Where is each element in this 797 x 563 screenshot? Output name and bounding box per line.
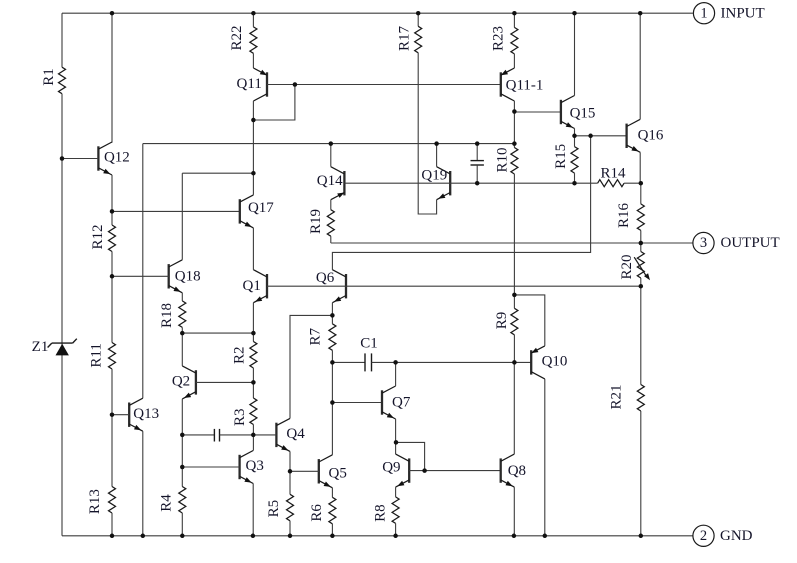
svg-text:R18: R18 xyxy=(159,303,175,328)
svg-text:R19: R19 xyxy=(308,209,324,234)
svg-text:Q16: Q16 xyxy=(638,128,664,144)
svg-text:R22: R22 xyxy=(229,25,245,50)
svg-text:Q8: Q8 xyxy=(508,463,526,479)
svg-text:R5: R5 xyxy=(266,500,282,518)
svg-text:R21: R21 xyxy=(609,384,625,409)
svg-text:R9: R9 xyxy=(494,312,510,330)
svg-text:Q11: Q11 xyxy=(237,76,262,92)
svg-text:R14: R14 xyxy=(600,165,626,181)
svg-text:R1: R1 xyxy=(41,68,57,86)
svg-text:1: 1 xyxy=(700,5,707,21)
svg-text:Q17: Q17 xyxy=(248,200,274,216)
svg-text:Q4: Q4 xyxy=(286,426,305,442)
svg-text:R20: R20 xyxy=(619,254,635,279)
svg-text:Q2: Q2 xyxy=(172,373,190,389)
svg-text:Q11-1: Q11-1 xyxy=(506,77,544,93)
svg-text:C1: C1 xyxy=(360,335,378,351)
svg-text:3: 3 xyxy=(700,235,707,251)
svg-text:R15: R15 xyxy=(553,144,569,169)
svg-text:R10: R10 xyxy=(494,147,510,172)
svg-text:2: 2 xyxy=(700,528,707,544)
svg-text:R8: R8 xyxy=(373,504,389,522)
svg-text:INPUT: INPUT xyxy=(721,5,765,21)
svg-text:R12: R12 xyxy=(90,224,106,249)
svg-text:R23: R23 xyxy=(491,26,507,51)
svg-text:Q6: Q6 xyxy=(316,270,335,286)
svg-text:R3: R3 xyxy=(232,409,248,427)
svg-text:Q12: Q12 xyxy=(104,150,130,166)
svg-text:GND: GND xyxy=(720,528,753,544)
svg-text:Q19: Q19 xyxy=(421,167,447,183)
svg-text:R16: R16 xyxy=(616,203,632,229)
svg-text:R6: R6 xyxy=(309,504,325,522)
svg-text:R2: R2 xyxy=(232,346,248,364)
svg-text:Q1: Q1 xyxy=(243,278,261,294)
svg-text:Q5: Q5 xyxy=(329,465,347,481)
svg-text:Z1: Z1 xyxy=(32,339,49,355)
svg-text:Q13: Q13 xyxy=(133,406,159,422)
svg-text:OUTPUT: OUTPUT xyxy=(721,235,780,251)
svg-text:Q15: Q15 xyxy=(570,106,596,122)
svg-text:Q10: Q10 xyxy=(542,353,568,369)
svg-text:R7: R7 xyxy=(307,327,323,345)
svg-text:R13: R13 xyxy=(87,489,103,514)
svg-text:R4: R4 xyxy=(158,494,174,512)
svg-text:Q3: Q3 xyxy=(246,458,264,474)
svg-text:Q7: Q7 xyxy=(392,394,411,410)
svg-text:Q18: Q18 xyxy=(175,268,201,284)
svg-text:Q14: Q14 xyxy=(317,173,343,189)
svg-text:R17: R17 xyxy=(396,26,412,52)
svg-text:R11: R11 xyxy=(89,343,105,367)
svg-text:Q9: Q9 xyxy=(382,459,400,475)
